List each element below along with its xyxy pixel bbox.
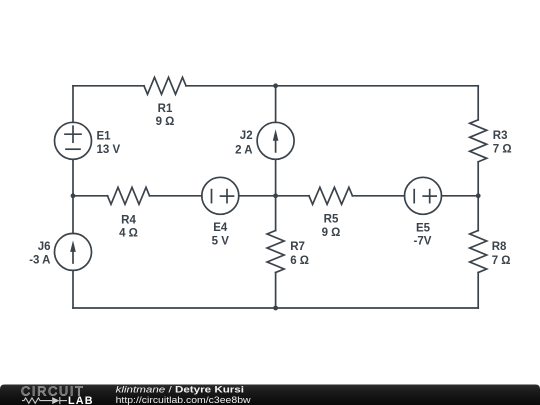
wire left rail bottom — [72, 270, 74, 308]
svg-text:J2: J2 — [240, 130, 253, 142]
wire mid vertical middle — [275, 159, 277, 230]
svg-text:E5: E5 — [416, 222, 431, 234]
resistor R8 — [470, 231, 487, 273]
node junction dot bottom-mid — [273, 306, 278, 311]
svg-text:R3: R3 — [493, 130, 508, 142]
svg-text:LAB: LAB — [68, 395, 94, 405]
node junction dot right-mid — [476, 193, 481, 198]
svg-text:9 Ω: 9 Ω — [322, 227, 341, 239]
svg-text:7 Ω: 7 Ω — [493, 144, 512, 156]
svg-text:7 Ω: 7 Ω — [492, 255, 511, 267]
wire top rail right segment — [186, 85, 478, 87]
resistor R5 — [309, 187, 352, 204]
resistor R4 — [108, 187, 150, 204]
svg-text:-3 A: -3 A — [29, 254, 50, 266]
svg-text:9 Ω: 9 Ω — [156, 116, 175, 128]
wire mid vertical top — [275, 86, 277, 123]
resistor R3 — [470, 120, 487, 162]
wire mid rail seg1 — [73, 195, 108, 197]
wire right rail mid — [477, 162, 479, 231]
voltage source E1 — [55, 122, 92, 159]
svg-text:6 Ω: 6 Ω — [290, 255, 309, 267]
wire mid rail seg4 — [352, 195, 404, 197]
svg-text:5 V: 5 V — [212, 235, 230, 247]
svg-text:E1: E1 — [97, 130, 112, 142]
node junction dot top-mid — [273, 83, 278, 88]
wire mid rail seg2 — [150, 195, 202, 197]
node junction dot left-mid — [71, 193, 76, 198]
svg-text:http://circuitlab.com/c3ee8bw: http://circuitlab.com/c3ee8bw — [116, 395, 251, 405]
svg-text:R4: R4 — [121, 214, 136, 226]
svg-text:4 Ω: 4 Ω — [119, 228, 138, 240]
resistor R7 — [267, 231, 284, 273]
svg-text:R7: R7 — [290, 241, 305, 253]
svg-text:klintmane / Detyre Kursi: klintmane / Detyre Kursi — [116, 384, 244, 394]
current source J6 — [55, 233, 92, 270]
svg-text:R1: R1 — [158, 103, 173, 115]
wire right rail bottom — [477, 273, 479, 309]
node junction dot center — [273, 193, 278, 198]
CircuitLab logo waveform resistor and diode — [22, 397, 67, 404]
wire left rail top — [72, 86, 74, 123]
wire top rail left segment — [73, 85, 144, 87]
wire mid rail seg3 — [239, 195, 309, 197]
svg-text:R8: R8 — [492, 241, 507, 253]
wire mid rail seg5 — [442, 195, 479, 197]
resistor R1 — [144, 77, 186, 94]
wire bottom rail — [73, 307, 478, 309]
svg-text:-7V: -7V — [414, 236, 432, 248]
wire right rail top — [477, 86, 479, 120]
svg-text:J6: J6 — [38, 241, 51, 253]
wire left rail mid — [72, 159, 74, 233]
svg-text:E4: E4 — [213, 222, 228, 234]
current source J2 — [257, 122, 294, 159]
voltage source E5 — [405, 177, 442, 214]
svg-text:R5: R5 — [324, 213, 339, 225]
voltage source E4 — [202, 177, 239, 214]
svg-text:13 V: 13 V — [97, 144, 121, 156]
svg-text:2 A: 2 A — [235, 144, 252, 156]
wire mid vertical bottom — [275, 273, 277, 309]
